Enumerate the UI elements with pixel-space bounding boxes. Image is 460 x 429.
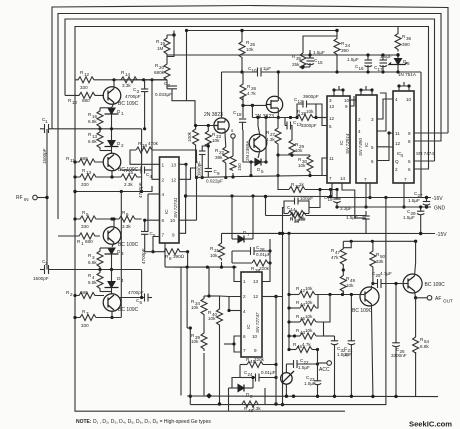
capacitor C17 1.5uF bbox=[380, 59, 388, 61]
resistor R4 6.8k bbox=[97, 270, 103, 291]
svg-text:15: 15 bbox=[128, 170, 134, 175]
svg-text:220k: 220k bbox=[254, 357, 265, 362]
svg-text:6.8k: 6.8k bbox=[88, 139, 97, 144]
svg-text:9: 9 bbox=[345, 104, 348, 109]
svg-text:6: 6 bbox=[126, 212, 129, 217]
svg-text:35: 35 bbox=[296, 56, 302, 61]
svg-text:2: 2 bbox=[395, 167, 398, 172]
wire supply row y72 bbox=[222, 71, 258, 73]
capacitor C23 1.5uF bbox=[314, 380, 321, 382]
svg-text:680: 680 bbox=[80, 156, 88, 161]
svg-text:IN: IN bbox=[24, 197, 29, 202]
capacitor C22 1.5uF bbox=[293, 360, 295, 368]
wire rail y404 bbox=[190, 198, 386, 405]
svg-text:13: 13 bbox=[86, 170, 92, 175]
svg-text:100k: 100k bbox=[187, 131, 192, 142]
svg-text:4.3k: 4.3k bbox=[266, 137, 275, 142]
capacitor C13 3300pF bbox=[284, 118, 286, 126]
svg-text:1: 1 bbox=[45, 119, 48, 124]
svg-text:12: 12 bbox=[84, 72, 90, 77]
capacitor C4 4700pF bbox=[120, 169, 141, 171]
svg-text:12: 12 bbox=[395, 141, 401, 146]
wire loop L3 bbox=[65, 19, 435, 161]
capacitor C30 1.5uF bbox=[362, 215, 369, 217]
ladder rail left bbox=[288, 234, 290, 351]
wire pin2 row bbox=[152, 170, 160, 179]
diode D4 bbox=[108, 282, 115, 288]
svg-text:6.8k: 6.8k bbox=[88, 280, 97, 285]
svg-text:BC 109C: BC 109C bbox=[352, 308, 373, 314]
potentiometer bbox=[281, 373, 293, 385]
svg-text:Q: Q bbox=[395, 159, 399, 164]
svg-text:SN 72914: SN 72914 bbox=[345, 133, 350, 154]
IC3 SN 7490 bbox=[356, 95, 377, 183]
resistor R7 330 bbox=[75, 315, 100, 321]
svg-text:6.8k: 6.8k bbox=[420, 344, 429, 349]
svg-text:BC 109C: BC 109C bbox=[118, 101, 139, 107]
svg-text:SN 7490: SN 7490 bbox=[358, 138, 363, 156]
svg-text:14: 14 bbox=[291, 207, 297, 212]
capacitor C28 0.01uF bbox=[250, 247, 252, 255]
resistor R32 1k bbox=[278, 176, 289, 190]
svg-text:10k: 10k bbox=[246, 47, 254, 52]
resistor R13b 330 bbox=[75, 174, 100, 180]
capacitor C18 bbox=[239, 118, 246, 120]
wire IC bottoms to rails bbox=[331, 183, 333, 198]
transistor Q3 BC109C bbox=[103, 227, 121, 245]
svg-text:7: 7 bbox=[247, 232, 250, 237]
svg-text:3300pF: 3300pF bbox=[301, 123, 317, 128]
svg-text:IC: IC bbox=[364, 142, 369, 147]
svg-text:220k: 220k bbox=[259, 266, 270, 271]
resistor R10 680 bbox=[65, 92, 104, 98]
svg-text:15: 15 bbox=[318, 60, 324, 65]
svg-text:10k: 10k bbox=[346, 283, 354, 288]
capacitor C12 3900pF loop bbox=[297, 104, 303, 118]
wire left rail bbox=[75, 80, 345, 411]
svg-text:SeekIC.com: SeekIC.com bbox=[409, 420, 452, 429]
svg-text:2: 2 bbox=[162, 178, 165, 183]
capacitor C25 4.7uF bbox=[377, 279, 379, 288]
wire pin9 riser bbox=[179, 196, 186, 233]
svg-text:12: 12 bbox=[171, 178, 177, 183]
svg-text:1.5μF: 1.5μF bbox=[313, 50, 325, 55]
svg-text:0.022μF: 0.022μF bbox=[206, 179, 223, 184]
svg-text:2: 2 bbox=[121, 143, 124, 148]
svg-text:7: 7 bbox=[404, 177, 407, 182]
svg-text:390: 390 bbox=[402, 42, 410, 47]
svg-text:10k: 10k bbox=[191, 305, 199, 310]
capacitor C11 3900pF bbox=[199, 150, 206, 152]
wire IC1 pin10 riser bbox=[196, 178, 198, 221]
svg-text:13: 13 bbox=[329, 104, 335, 109]
diode D5 bbox=[255, 159, 261, 166]
capacitor C1 1500pF bbox=[44, 124, 46, 133]
svg-text:10: 10 bbox=[72, 100, 78, 105]
wire IC2 right pins bbox=[350, 99, 356, 101]
svg-text:-15V: -15V bbox=[436, 232, 447, 238]
svg-text:1M: 1M bbox=[157, 46, 164, 51]
resistor R42 10k bbox=[299, 292, 315, 298]
diode D1 bbox=[108, 108, 115, 114]
resistor R39p 25k bbox=[300, 53, 306, 69]
capacitor C29 1.5uF bbox=[417, 210, 424, 212]
svg-text:39k: 39k bbox=[215, 155, 223, 160]
svg-text:8: 8 bbox=[169, 256, 172, 261]
transistor Q6 2N2369A bbox=[249, 134, 267, 152]
svg-text:RF: RF bbox=[16, 195, 23, 201]
diode D3 bbox=[108, 248, 115, 254]
svg-text:6.8k: 6.8k bbox=[88, 119, 97, 124]
svg-text:13: 13 bbox=[171, 163, 177, 168]
svg-text:6: 6 bbox=[407, 61, 410, 66]
wire pin13 bbox=[179, 163, 186, 165]
resistor R46 4.7k bbox=[296, 347, 312, 353]
transistor Q1 BC109C bbox=[103, 87, 121, 105]
terminal AF out bbox=[414, 296, 417, 299]
wire pin1 bbox=[142, 186, 152, 192]
svg-text:1.5μF: 1.5μF bbox=[408, 198, 420, 203]
op-amp IC1 SN 72741 bbox=[160, 157, 180, 243]
wire IC2 pin11 bbox=[310, 158, 327, 176]
svg-text:2N 2369A: 2N 2369A bbox=[245, 140, 250, 161]
wire gate Q5b row bbox=[243, 104, 267, 106]
svg-text:1.5μF: 1.5μF bbox=[298, 365, 310, 370]
svg-text:4: 4 bbox=[243, 309, 246, 314]
resistor R33s 150 bbox=[230, 156, 236, 171]
svg-text:0.033μF: 0.033μF bbox=[155, 92, 172, 97]
resistor R15 2.3k bbox=[100, 176, 121, 178]
capacitor C5 4700pF bbox=[141, 231, 148, 233]
wire IC5 left pins bbox=[234, 267, 241, 281]
wire vertical risers mid bbox=[180, 267, 182, 395]
resistor R45 10k bbox=[300, 319, 316, 325]
resistor R21 100k bbox=[193, 126, 199, 147]
svg-text:3.3k: 3.3k bbox=[122, 83, 131, 88]
resistor R47 47k bbox=[340, 248, 346, 266]
svg-text:10k: 10k bbox=[298, 163, 306, 168]
capacitor C27 1.5uF bbox=[423, 201, 430, 203]
svg-text:4: 4 bbox=[162, 192, 165, 197]
svg-text:10k: 10k bbox=[306, 109, 314, 114]
svg-text:2: 2 bbox=[243, 294, 246, 299]
wire IC4 outputs to loops bbox=[414, 132, 448, 134]
wire RF input rail bbox=[46, 129, 48, 270]
transistor Q7 BC109C bbox=[360, 287, 379, 306]
wire y196 row bbox=[230, 194, 233, 197]
svg-text:GND: GND bbox=[434, 206, 446, 212]
resistor R24 390 bbox=[334, 31, 340, 57]
svg-text:NOTE: D₁ , D₂, D₃, D₄, D₅, D₆,: NOTE: D₁ , D₂, D₃, D₄, D₅, D₆, D₇, D₈ = … bbox=[76, 419, 211, 425]
resistor R1 680 bbox=[58, 233, 100, 239]
svg-text:9: 9 bbox=[254, 348, 257, 353]
svg-text:0.01μF: 0.01μF bbox=[261, 370, 276, 375]
svg-text:33k: 33k bbox=[376, 259, 384, 264]
wire pin10 bbox=[179, 219, 197, 221]
IC3 SN 7490 top loop bbox=[361, 90, 372, 95]
capacitor C10 1uF bbox=[257, 68, 259, 77]
svg-text:13: 13 bbox=[253, 279, 259, 284]
svg-text:10k: 10k bbox=[305, 286, 313, 291]
svg-text:3.3k: 3.3k bbox=[252, 406, 261, 411]
wire supply feed vertical bbox=[420, 72, 422, 198]
wire -15V rail bbox=[222, 232, 436, 234]
capacitor C2 1500pF bbox=[44, 265, 46, 274]
svg-text:330: 330 bbox=[81, 182, 89, 187]
resistor R22 39k bbox=[223, 147, 229, 163]
resistor R44 10k bbox=[300, 305, 316, 311]
svg-text:3.3k: 3.3k bbox=[122, 224, 131, 229]
capacitor C7 0.033uF bbox=[167, 85, 177, 87]
svg-text:OUT: OUT bbox=[443, 299, 453, 304]
svg-text:SN 7474: SN 7474 bbox=[416, 151, 434, 156]
svg-text:12: 12 bbox=[253, 294, 259, 299]
terminal ACC bbox=[317, 350, 319, 365]
svg-text:3: 3 bbox=[371, 117, 374, 122]
svg-text:SN 72741: SN 72741 bbox=[173, 197, 178, 218]
svg-text:1.5μF: 1.5μF bbox=[347, 57, 359, 62]
svg-text:330: 330 bbox=[80, 85, 88, 90]
svg-text:BC 109C: BC 109C bbox=[425, 282, 446, 288]
resistor R38b 220k bbox=[252, 260, 270, 266]
svg-text:10: 10 bbox=[344, 98, 350, 103]
svg-text:10k: 10k bbox=[298, 217, 306, 222]
wire mixer row y117.5 bbox=[252, 117, 297, 119]
diode D8 bbox=[238, 385, 244, 392]
svg-text:1.5μF: 1.5μF bbox=[304, 381, 316, 386]
svg-text:680: 680 bbox=[85, 239, 93, 244]
resistor R5 330 bbox=[75, 216, 100, 222]
transistor Q4 BC109C bbox=[103, 294, 121, 312]
svg-text:470k: 470k bbox=[148, 141, 159, 146]
svg-text:12: 12 bbox=[298, 99, 304, 104]
svg-text:6: 6 bbox=[371, 159, 374, 164]
wire vertical columns mid-left bbox=[120, 192, 122, 318]
resistor R14 3.3k bbox=[121, 77, 137, 83]
svg-text:2: 2 bbox=[70, 292, 73, 297]
svg-text:3.3μF: 3.3μF bbox=[340, 206, 352, 211]
resistor R30 10k bbox=[307, 155, 313, 174]
wire IC2 pin12 input bbox=[316, 117, 327, 119]
diode D7 bbox=[238, 236, 244, 243]
svg-text:390: 390 bbox=[341, 48, 349, 53]
capacitor C15 1.5uF bbox=[307, 57, 315, 59]
svg-text:1.5μF: 1.5μF bbox=[380, 54, 392, 59]
svg-text:6.8k: 6.8k bbox=[88, 260, 97, 265]
terminal RF in bbox=[33, 195, 38, 200]
svg-text:3900pF: 3900pF bbox=[197, 161, 202, 177]
svg-text:7: 7 bbox=[162, 233, 165, 238]
svg-text:2.3k: 2.3k bbox=[124, 182, 133, 187]
svg-text:3: 3 bbox=[329, 98, 332, 103]
svg-text:19: 19 bbox=[328, 197, 334, 202]
svg-text:9: 9 bbox=[408, 131, 411, 136]
svg-text:7: 7 bbox=[329, 176, 332, 181]
svg-text:10k: 10k bbox=[212, 138, 220, 143]
svg-text:1: 1 bbox=[162, 163, 165, 168]
svg-text:390Ω: 390Ω bbox=[173, 254, 185, 259]
svg-text:100pF: 100pF bbox=[300, 196, 313, 201]
IC2 SN 72914 bbox=[327, 96, 350, 183]
svg-text:14: 14 bbox=[340, 176, 346, 181]
capacitor C3 4700pF bbox=[134, 79, 145, 81]
wire IC5 pin12 bbox=[262, 296, 276, 298]
svg-text:2N 3823: 2N 3823 bbox=[204, 112, 223, 118]
svg-text:4: 4 bbox=[401, 153, 404, 158]
resistor R36 390 bbox=[395, 27, 401, 52]
capacitor C16 1.5uF bbox=[365, 59, 373, 61]
resistor R54 6.8k bbox=[413, 336, 419, 354]
resistor R41 220k bbox=[247, 362, 265, 368]
svg-text:11: 11 bbox=[329, 156, 334, 161]
svg-text:5: 5 bbox=[408, 159, 411, 164]
resistor R48b 3.3k bbox=[242, 401, 258, 407]
svg-text:10k: 10k bbox=[305, 328, 313, 333]
capacitor C6 4700pF bbox=[120, 297, 145, 299]
capacitor C26 3300nF bbox=[392, 342, 400, 344]
svg-text:680k: 680k bbox=[154, 70, 165, 75]
wire mid junction row bbox=[75, 191, 142, 193]
svg-text:150: 150 bbox=[237, 163, 242, 171]
svg-text:14: 14 bbox=[125, 72, 131, 77]
resistor R28 10k bbox=[297, 115, 316, 121]
resistor R16 6.8k bbox=[100, 107, 112, 109]
svg-text:6: 6 bbox=[140, 300, 143, 305]
wire row y175.5 bbox=[196, 176, 310, 178]
svg-text:5: 5 bbox=[261, 169, 264, 174]
resistor R6 3.3k bbox=[119, 216, 142, 222]
transistor Q5b 2N3823 FET bbox=[266, 96, 282, 112]
svg-text:9: 9 bbox=[217, 171, 220, 176]
capacitor C21 1uF bbox=[348, 340, 355, 342]
diode D2 bbox=[108, 141, 115, 147]
svg-text:9: 9 bbox=[172, 233, 175, 238]
svg-text:5: 5 bbox=[86, 212, 89, 217]
wire IC4 top loop bbox=[399, 86, 409, 91]
resistor R23 10k bbox=[205, 126, 211, 149]
wire IC2 pin5 bbox=[316, 104, 327, 126]
svg-text:1μF: 1μF bbox=[263, 66, 271, 71]
resistor R27 4.3k bbox=[275, 125, 281, 145]
svg-text:1N 751A: 1N 751A bbox=[398, 72, 417, 77]
svg-text:10: 10 bbox=[252, 68, 258, 73]
wire pin12 bbox=[179, 168, 197, 179]
svg-text:ACC: ACC bbox=[319, 367, 330, 373]
wire loop L2 bbox=[58, 14, 441, 220]
svg-text:16: 16 bbox=[359, 66, 365, 71]
resistor R50 33k bbox=[370, 250, 376, 268]
svg-text:1: 1 bbox=[243, 279, 246, 284]
svg-text:680: 680 bbox=[80, 290, 88, 295]
svg-text:0.01μF: 0.01μF bbox=[256, 252, 271, 257]
svg-text:6: 6 bbox=[162, 218, 165, 223]
svg-text:4: 4 bbox=[395, 97, 398, 102]
wire ground rail y396 bbox=[187, 395, 438, 398]
svg-text:10k: 10k bbox=[210, 253, 218, 258]
wire IC3-IC4 links bbox=[377, 99, 393, 119]
resistor R2 680 bbox=[75, 293, 104, 299]
svg-text:1.5μF: 1.5μF bbox=[337, 352, 349, 357]
svg-text:IC: IC bbox=[164, 209, 169, 214]
resistor R8 390 bbox=[153, 237, 160, 252]
resistor R13 6.8k bbox=[97, 129, 103, 150]
resistor R20 680k bbox=[164, 62, 170, 82]
svg-text:2: 2 bbox=[45, 261, 48, 266]
svg-text:6: 6 bbox=[408, 167, 411, 172]
svg-text:1: 1 bbox=[81, 241, 84, 246]
svg-text:12: 12 bbox=[329, 116, 335, 121]
svg-text:4.7k: 4.7k bbox=[302, 342, 311, 347]
svg-text:7: 7 bbox=[168, 83, 171, 88]
resistor R40 10k bbox=[217, 308, 223, 326]
wire gate Q5 bbox=[187, 101, 215, 126]
svg-text:680: 680 bbox=[82, 98, 90, 103]
IC5 SN 72747 bbox=[241, 272, 262, 357]
svg-text:330: 330 bbox=[81, 323, 89, 328]
wire loop L4 bbox=[75, 27, 429, 169]
resistor R12 330 bbox=[75, 77, 97, 83]
resistor R43 10k bbox=[300, 333, 316, 339]
svg-text:47k: 47k bbox=[331, 255, 339, 260]
wire row y267 bbox=[165, 266, 237, 268]
svg-text:18: 18 bbox=[237, 112, 243, 117]
wire pin4 bbox=[148, 193, 160, 195]
svg-text:4: 4 bbox=[358, 129, 361, 134]
resistor R3 6.8k bbox=[100, 247, 112, 249]
resistor R26 4.7k bbox=[240, 72, 246, 102]
resistor R29 10k bbox=[289, 139, 295, 157]
IC4 SN 7474 bbox=[393, 91, 414, 183]
svg-text:-16V: -16V bbox=[432, 196, 443, 202]
svg-text:1500pF: 1500pF bbox=[42, 148, 47, 164]
svg-text:5: 5 bbox=[371, 145, 374, 150]
transistor Q5 2N3823 FET bbox=[214, 118, 229, 133]
svg-text:8: 8 bbox=[408, 139, 411, 144]
svg-text:2: 2 bbox=[358, 117, 361, 122]
svg-text:5: 5 bbox=[329, 124, 332, 129]
capacitor C14 100pF with R33 10k loop bbox=[284, 201, 295, 208]
svg-text:1.5μF: 1.5μF bbox=[403, 215, 415, 220]
resistor R49 10k bbox=[340, 275, 346, 293]
svg-text:10k: 10k bbox=[208, 316, 216, 321]
wire IC5 pin6/7 bottom bbox=[234, 336, 241, 352]
svg-text:7: 7 bbox=[86, 311, 89, 316]
resistor R19 1M bbox=[164, 35, 170, 56]
capacitor C24 0.01uF bbox=[255, 374, 257, 382]
svg-text:IC: IC bbox=[339, 140, 344, 145]
resistor R11 680 bbox=[75, 159, 104, 165]
wire IC2 pin3 loop bbox=[334, 90, 343, 96]
svg-text:10k: 10k bbox=[191, 339, 199, 344]
resistor R34 10k bbox=[201, 298, 207, 316]
capacitor C19 3.3uF bbox=[336, 190, 338, 200]
svg-text:4.7k: 4.7k bbox=[247, 91, 256, 96]
svg-text:10: 10 bbox=[252, 334, 258, 339]
svg-text:10k: 10k bbox=[305, 300, 313, 305]
svg-text:6: 6 bbox=[243, 334, 246, 339]
svg-text:7: 7 bbox=[243, 348, 246, 353]
svg-text:1k: 1k bbox=[299, 182, 305, 187]
diode D6 zener 1N751A bbox=[395, 59, 402, 65]
wire supply bus top bbox=[187, 30, 338, 32]
svg-text:36: 36 bbox=[406, 36, 412, 41]
resistor R39 10k bbox=[201, 331, 207, 351]
wire -16V rail bbox=[327, 197, 431, 199]
resistor R18 470k bbox=[136, 147, 154, 153]
terminal S input bbox=[231, 134, 235, 138]
wire GND rail bbox=[337, 206, 431, 208]
svg-text:1: 1 bbox=[121, 111, 124, 116]
